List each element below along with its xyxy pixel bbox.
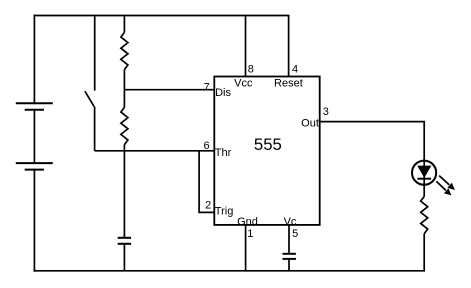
svg-text:Trig: Trig <box>215 206 234 218</box>
svg-text:3: 3 <box>323 106 329 118</box>
wire left rail upper <box>33 16 35 104</box>
battery B1 cell 2 <box>16 163 53 170</box>
svg-text:Vcc: Vcc <box>234 77 253 89</box>
IC U1 555 body <box>214 77 319 225</box>
svg-text:7: 7 <box>204 82 210 94</box>
wire pin 3 Out <box>320 121 425 123</box>
wire between battery cells <box>33 110 35 163</box>
wire pin 5 Vc <box>288 225 290 254</box>
wire right rail to LED <box>423 122 425 197</box>
wire pin 4 Reset <box>288 16 290 77</box>
capacitor C2 <box>283 254 296 259</box>
wire pin 1 Gnd <box>245 225 247 271</box>
svg-text:Thr: Thr <box>215 147 232 159</box>
wire C1 to bottom rail <box>123 244 125 271</box>
wire C2 to bottom rail <box>288 259 290 271</box>
svg-text:Reset: Reset <box>274 77 303 89</box>
resistor R2 <box>121 90 128 145</box>
capacitor C1 <box>118 238 131 244</box>
svg-text:1: 1 <box>247 228 253 240</box>
svg-text:Gnd: Gnd <box>237 216 258 228</box>
wire left rail lower <box>33 170 35 271</box>
svg-text:Dis: Dis <box>215 87 231 99</box>
resistor R3 <box>421 197 428 271</box>
svg-text:6: 6 <box>203 140 209 152</box>
wire Thr horizontal <box>95 150 215 152</box>
battery B1 cell 1 <box>16 103 53 110</box>
svg-text:5: 5 <box>292 228 298 240</box>
svg-text:Out: Out <box>301 117 319 129</box>
wire Dis horizontal <box>124 89 214 91</box>
wire Trig stub <box>199 151 214 213</box>
svg-text:8: 8 <box>248 64 254 76</box>
switch S1 <box>85 16 95 151</box>
resistor R1 <box>121 16 128 90</box>
wire pin 8 Vcc <box>245 16 247 77</box>
svg-text:Vc: Vc <box>284 216 297 228</box>
wire bottom rail <box>34 270 424 272</box>
svg-text:555: 555 <box>254 135 282 154</box>
wire top rail <box>34 15 288 17</box>
LED D1 <box>412 161 455 196</box>
svg-text:2: 2 <box>205 199 211 211</box>
wire R2 to capacitor C1 <box>123 145 125 238</box>
svg-text:4: 4 <box>292 64 298 76</box>
